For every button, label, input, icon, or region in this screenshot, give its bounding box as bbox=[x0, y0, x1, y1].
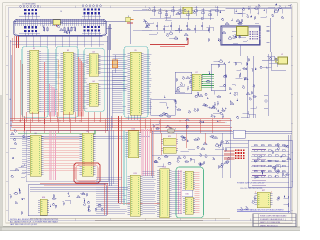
expansion pad grid red bbox=[235, 150, 245, 160]
left bus red drops bbox=[21, 60, 45, 131]
PSU IC U17 bbox=[254, 190, 272, 207]
PIO IC U15 upper bbox=[183, 171, 195, 190]
connector drop wire bbox=[131, 22, 153, 44]
PIO label plate bbox=[182, 190, 193, 196]
page left edge shadow bbox=[0, 95, 2, 231]
shift pink band bbox=[142, 129, 149, 176]
svg-text:U15: U15 bbox=[185, 194, 188, 196]
cassette parts left bbox=[10, 188, 25, 215]
decoder IC U11 bbox=[161, 136, 178, 145]
drawing sheet border bbox=[8, 8, 291, 221]
latch IC U9 bbox=[80, 131, 96, 176]
bottom rails bbox=[30, 187, 230, 220]
U13-U14 fan bbox=[143, 171, 158, 213]
memory group box B bbox=[56, 47, 78, 118]
capacitor C2 bbox=[126, 16, 134, 24]
reg input parts bbox=[260, 56, 278, 69]
latch IC U8 bbox=[28, 133, 44, 176]
top mid components bbox=[142, 8, 226, 42]
svg-text:HOME COMPUTER MAIN BOARD: HOME COMPUTER MAIN BOARD bbox=[260, 215, 287, 218]
keyboard key pads lower-left bbox=[24, 26, 37, 32]
keyboard bus wires bbox=[14, 20, 129, 26]
svg-text:U16: U16 bbox=[42, 197, 45, 199]
svg-text:U8: U8 bbox=[34, 133, 36, 135]
svg-text:16: 16 bbox=[60, 11, 62, 13]
RF modulator box bbox=[221, 26, 260, 45]
svg-text:U9: U9 bbox=[86, 131, 88, 133]
modulator crystal X1 bbox=[180, 7, 195, 14]
keyboard key pads lower-right bbox=[84, 26, 101, 32]
video mixer parts bbox=[176, 77, 191, 92]
row select pink band bbox=[50, 131, 55, 180]
buffer IC U13 bbox=[128, 173, 143, 216]
U14-U15 fan bbox=[172, 171, 183, 213]
bottom right text rows bbox=[237, 182, 265, 190]
CPU to bus stubs bbox=[128, 115, 140, 120]
fuse F1 bbox=[168, 129, 175, 133]
svg-text:U7: U7 bbox=[195, 72, 197, 74]
CPU group box bbox=[124, 47, 148, 118]
notes text bottom left bbox=[10, 218, 59, 226]
RAM IC U1 bbox=[27, 48, 41, 113]
svg-text:J1 KEYBOARD: J1 KEYBOARD bbox=[22, 3, 36, 6]
RF socket pin grid bbox=[250, 31, 261, 40]
decoder IC U12 bbox=[161, 147, 178, 153]
video amp transistors bbox=[195, 58, 257, 119]
counter IC U10 bbox=[126, 129, 141, 158]
address bus red bundle bbox=[10, 119, 232, 133]
expansion red wires bbox=[224, 151, 235, 160]
svg-text:LAST REF: R68 C41 U21 Q9 D12: LAST REF: R68 C41 U21 Q9 D12 bbox=[10, 223, 37, 226]
serial feed wires bbox=[225, 141, 248, 148]
page bottom edge shadow bbox=[0, 227, 300, 231]
cassette interface box bbox=[28, 185, 106, 216]
svg-text:NOTES: ALL RESISTORS 1/4W 5% U: NOTES: ALL RESISTORS 1/4W 5% UNLESS NOTE… bbox=[10, 218, 59, 221]
top right components bbox=[234, 3, 291, 19]
svg-text:U5: U5 bbox=[134, 50, 136, 52]
svg-text:U3: U3 bbox=[92, 52, 94, 54]
top-left annotation bbox=[22, 3, 62, 13]
RF modulator parts bbox=[228, 35, 247, 44]
power rail +5V bbox=[226, 9, 292, 14]
right analog box bbox=[211, 64, 226, 91]
video green wires bbox=[202, 75, 214, 88]
centre frame lines bbox=[152, 118, 230, 178]
bus link verticals bbox=[108, 24, 112, 131]
svg-text:U4: U4 bbox=[92, 81, 94, 83]
amp IC U16 bbox=[38, 197, 49, 215]
mux red loop bbox=[74, 163, 100, 183]
ROM IC U3 bbox=[87, 52, 101, 76]
buffer IC U14 bbox=[157, 167, 171, 218]
parts above RF box bbox=[225, 16, 258, 24]
PIO IC U15 lower bbox=[183, 197, 195, 214]
ROM IC U4 bbox=[87, 81, 101, 106]
regulator VR1 bbox=[262, 52, 288, 70]
memory group box A bbox=[22, 47, 48, 118]
svg-text:U11: U11 bbox=[168, 136, 171, 138]
RAM to bus red stubs bbox=[26, 112, 100, 122]
address bus hairlines U2-U3 bbox=[74, 55, 88, 111]
svg-text:U10: U10 bbox=[132, 129, 135, 131]
white box K1 bbox=[233, 130, 245, 138]
svg-text:U17: U17 bbox=[262, 190, 265, 192]
left margin wires bbox=[10, 40, 12, 130]
serial rows bbox=[254, 143, 291, 178]
sheet header text bbox=[146, 9, 167, 12]
data bus salmon band bbox=[79, 57, 84, 117]
RAM IC U2 bbox=[61, 50, 76, 114]
data bus green wire bbox=[18, 130, 95, 134]
keyboard key pads upper-left bbox=[24, 9, 37, 15]
pull-up resistors R2-R7 bbox=[43, 27, 76, 32]
address bus hairlines U1-U2 bbox=[40, 54, 62, 112]
memory group box C bbox=[84, 48, 104, 111]
svg-text:U2: U2 bbox=[67, 50, 69, 52]
mid logic field bbox=[153, 96, 177, 131]
left margin parts bbox=[10, 130, 25, 145]
CPU IC U5 Z80 bbox=[128, 50, 144, 115]
data bus pink band bbox=[50, 84, 57, 117]
video bus verticals bbox=[110, 116, 114, 186]
centre logic parts bbox=[180, 135, 228, 152]
right rails bbox=[247, 54, 268, 118]
serial box part rows bbox=[251, 145, 289, 183]
keyboard switch contacts bbox=[19, 5, 101, 36]
right mid rails bbox=[236, 131, 292, 213]
CPU right pin wires bbox=[144, 54, 152, 112]
CPU left pin wires bbox=[113, 54, 128, 112]
mid logic box bbox=[151, 99, 176, 115]
svg-text:POWER SUPPLY +5V +12V -5V: POWER SUPPLY +5V +12V -5V bbox=[237, 182, 265, 184]
bus red drops to centre bbox=[161, 133, 205, 155]
resistor pack RP1 bbox=[51, 20, 64, 27]
keyboard connector CN1 outline bbox=[13, 19, 107, 36]
svg-text:L2: L2 bbox=[281, 54, 283, 56]
svg-text:GRUNDSCHALTPLAN: GRUNDSCHALTPLAN bbox=[146, 9, 167, 12]
keyboard key pads upper-right bbox=[84, 8, 101, 14]
serial box bbox=[248, 140, 292, 187]
under-keyboard parts bbox=[43, 25, 75, 34]
right margin marks bbox=[264, 95, 268, 108]
U10 cyan drops bbox=[124, 130, 126, 205]
power arrow rail bbox=[267, 18, 271, 52]
svg-text:C30 C31 C32 C33 C34 C35: C30 C31 C32 C33 C34 C35 bbox=[240, 188, 262, 190]
left margin mid symbols bbox=[10, 148, 16, 170]
RAS wire orange bbox=[45, 60, 59, 117]
RF coil L1 bbox=[232, 27, 248, 36]
centre logic parts lower bbox=[153, 154, 229, 169]
datasheet link text bbox=[237, 208, 290, 211]
video PAL box bbox=[175, 72, 192, 94]
U8 left wires bbox=[22, 137, 28, 172]
PSU diodes bbox=[240, 195, 288, 210]
svg-text:U13: U13 bbox=[133, 173, 136, 175]
tape red feed bbox=[40, 183, 108, 215]
U10 red drops bbox=[119, 116, 161, 203]
svg-text:U1: U1 bbox=[33, 48, 35, 50]
top mid bus bbox=[133, 10, 225, 30]
cpu-rom link wires bbox=[99, 56, 128, 89]
top mid cap columns bbox=[153, 6, 219, 33]
centre web bbox=[177, 95, 227, 129]
svg-text:ALL CAPACITORS IN uF - IC PO: ALL CAPACITORS IN uF - IC POWER PINS SEE… bbox=[10, 221, 59, 224]
connector to RAM drops bbox=[10, 36, 108, 47]
RF box drop bbox=[239, 45, 241, 56]
left margin lower parts bbox=[11, 164, 25, 178]
character gen U7 bbox=[190, 72, 203, 90]
U8-U9 red bus bbox=[44, 137, 80, 171]
video out red trace bbox=[150, 38, 188, 47]
bus grey rails bbox=[10, 131, 292, 138]
U13 left fan bbox=[96, 177, 127, 213]
shift red pair bbox=[152, 128, 154, 176]
cassette parts bbox=[50, 192, 104, 212]
title block bbox=[253, 214, 296, 228]
serial text smears bbox=[252, 150, 266, 186]
clock resistor R9 bbox=[113, 55, 118, 73]
mid-left frame bbox=[26, 131, 108, 182]
PIO group green box bbox=[176, 167, 204, 218]
connector exit wires bbox=[13, 24, 113, 122]
PIO pink feed bbox=[179, 170, 182, 214]
svg-text:SEE SERVICE MANUAL SECTION 4 F: SEE SERVICE MANUAL SECTION 4 FOR ADJUSTM… bbox=[237, 208, 285, 211]
PIO red ticks bbox=[195, 173, 200, 213]
svg-text:U14: U14 bbox=[163, 167, 166, 169]
